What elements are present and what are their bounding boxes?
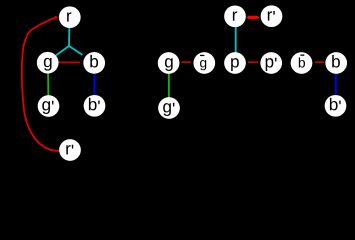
node r (left graph) <box>59 6 81 28</box>
wire: blue edge b-b' (left graph) <box>94 63 96 106</box>
wire: red edge bbar-b (right graph) <box>315 61 325 63</box>
node p (middle graph) <box>224 52 246 74</box>
node gbar (middle graph) <box>193 52 215 74</box>
wire: red edge p-p' (middle graph) <box>248 61 258 63</box>
node bbar (right graph) <box>291 52 313 74</box>
wire: green edge g-g' (middle graph) <box>168 63 170 108</box>
node b' (left graph) <box>84 95 106 117</box>
node g (middle graph) <box>158 52 180 74</box>
wire: cyan Y edge r-(g,b) (left graph) <box>56 24 82 55</box>
node r' (left graph) <box>59 139 81 161</box>
node b' (right graph) <box>325 95 347 117</box>
wire: green edge g-g' (left graph) <box>47 63 49 106</box>
node g (left graph) <box>37 52 59 74</box>
wire: thick red double-arrow edge r-r' (middle graph) <box>247 16 259 19</box>
node p' (middle graph) <box>260 52 282 74</box>
node b (right graph) <box>325 52 347 74</box>
node g' (middle graph) <box>158 97 180 119</box>
node r' (middle graph) <box>261 5 283 27</box>
wire: red edge g-gbar (middle graph) <box>181 61 191 63</box>
node r (middle graph) <box>224 5 246 27</box>
wire: red edge g-b (left graph) <box>58 61 81 63</box>
wire: cyan edge r-p (middle graph) <box>235 16 237 63</box>
wire: blue edge b-b' (right graph) <box>335 63 337 106</box>
wire: red arc edge r'-r (left graph) <box>22 16 60 151</box>
node b (left graph) <box>83 52 105 74</box>
node g' (left graph) <box>38 95 60 117</box>
